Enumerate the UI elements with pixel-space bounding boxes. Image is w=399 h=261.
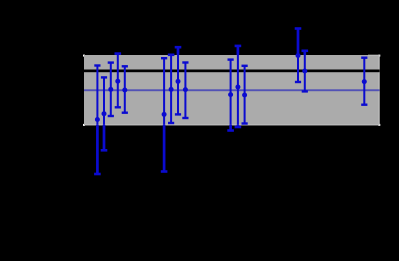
error bar 8 [175,46,182,116]
error bar 1 [94,64,101,175]
error bar 4 [115,52,122,108]
band right light rim [379,55,380,125]
corner tick top-left [83,55,85,57]
error bar 11 [235,45,242,129]
corner tick top-right [378,55,380,57]
black mean line [84,70,380,73]
error bar 5 [122,65,128,114]
error bar 12 [242,65,248,125]
error bar 14 [302,50,309,93]
band bottom light rim [84,124,380,125]
error bar 2 [101,76,108,151]
error bar 10 [227,58,234,131]
error bar 15 [361,57,367,106]
error bar 9 [182,61,188,119]
band top-right light rim [368,55,380,56]
corner tick bottom-right [378,124,380,126]
corner tick bottom-left [83,124,85,126]
error bar 7 [168,54,175,125]
error bar 3 [108,61,114,117]
blue reference line [84,89,380,91]
gray reference band [84,55,380,125]
error bar 13 [295,27,302,83]
error bar 6 [161,57,168,173]
